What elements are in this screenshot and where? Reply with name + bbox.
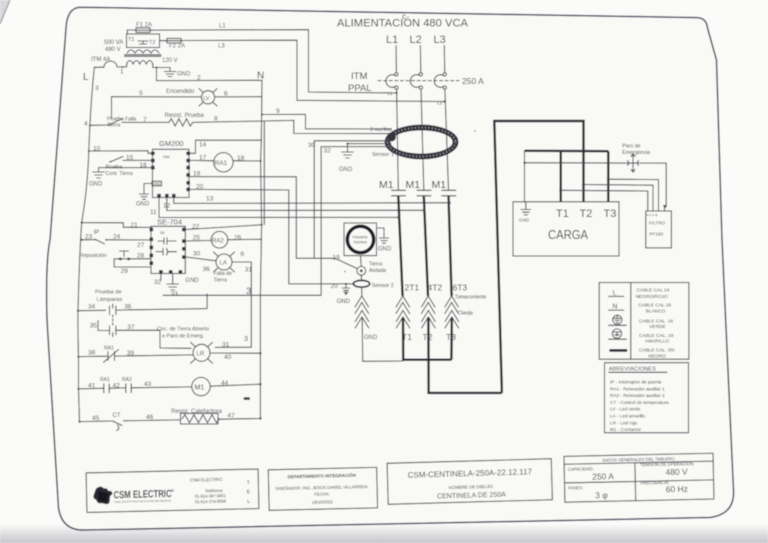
svg-text:CAPACIDAD:: CAPACIDAD: (568, 466, 594, 472)
contact 34-36 (78, 309, 207, 311)
svg-text:60 Hz: 60 Hz (666, 484, 688, 494)
phase L3 wire (pole to M1) (445, 89, 449, 190)
svg-text:PPAL: PPAL (348, 83, 372, 94)
wire GND to T1 corner (363, 360, 404, 362)
svg-text:Emergencia: Emergencia (622, 150, 650, 156)
svg-text:Clavija: Clavija (458, 311, 473, 317)
svg-text:LR: LR (197, 352, 205, 358)
svg-text:GM200: GM200 (159, 139, 184, 148)
svg-text:42: 42 (113, 383, 121, 390)
svg-text:13: 13 (206, 196, 214, 203)
rail L (left ladder rail) (78, 67, 99, 421)
sensor 1 secondary wire 32 + ground (321, 143, 391, 296)
wire 16 + ground (prueba cont tierra) (89, 162, 153, 188)
svg-text:SE-704: SE-704 (157, 218, 182, 227)
wire 7 (122, 117, 169, 124)
wire 6 (215, 91, 262, 98)
net CARGA GND riser (523, 151, 525, 202)
svg-text:T: T (247, 480, 250, 486)
wire 14 (to N rail) (190, 140, 261, 153)
ground (sensor 2 / wire 20) (337, 283, 351, 305)
phase 2T1 wire (397, 196, 419, 296)
switch IP (interruptor de puerta) (81, 230, 107, 244)
svg-text:o Paro de Emerg.: o Paro de Emerg. (162, 334, 204, 340)
svg-text:CABLE CAL. 16: CABLE CAL. 16 (639, 318, 674, 324)
phase L2 wire (top) (419, 46, 421, 73)
svg-text:M1: M1 (379, 179, 394, 191)
svg-text:32: 32 (324, 148, 332, 155)
wire 26 (228, 235, 262, 242)
wire 33 (to sensor2 ground bus) (163, 294, 321, 296)
svg-text:250 A: 250 A (592, 471, 614, 481)
svg-text:GND: GND (337, 299, 351, 305)
wire L1 (F1 to ITM pole) (150, 24, 396, 94)
svg-text:14: 14 (199, 142, 207, 149)
svg-text:RA2: RA2 (212, 238, 224, 244)
contactor contact M1 (pole 2) (406, 179, 432, 196)
contactor contact M1 (pole 3) (432, 179, 456, 196)
svg-text:19: 19 (333, 255, 341, 262)
wire 4 (84, 121, 109, 128)
svg-text:38: 38 (88, 350, 96, 357)
transformer T1 500VA 480V/120V (104, 34, 178, 64)
ground (SE-704) (167, 274, 199, 298)
svg-text:VERDE: VERDE (649, 324, 666, 330)
indicator LV Encendido (led verde) (166, 89, 217, 106)
svg-text:M1: M1 (406, 179, 421, 191)
sensor 1 secondary wire 30 (308, 141, 391, 258)
svg-text:36: 36 (203, 266, 211, 273)
phase L1 wire (top) (395, 46, 397, 73)
legend symbol ground yellow (609, 329, 674, 345)
svg-text:T3: T3 (604, 208, 617, 220)
text circ de tierra abierto o paro de emerg (157, 327, 209, 340)
capacitor C2 (inside SE-704) (156, 248, 176, 255)
svg-text:GND: GND (136, 202, 150, 208)
svg-text:PF150: PF150 (650, 232, 664, 237)
legend symbol ground green (609, 315, 674, 330)
wire 12 (to phase L2) (163, 198, 424, 211)
svg-text:43: 43 (144, 381, 152, 388)
svg-text:01-614-374-6058: 01-614-374-6058 (195, 499, 227, 505)
filter FILTRO PF150 (646, 208, 672, 248)
svg-text:26: 26 (234, 235, 242, 242)
svg-text:33: 33 (171, 291, 179, 298)
sensor 2 toroid (353, 275, 394, 289)
connector tomacorriente/clavija T3 (445, 296, 459, 360)
phase L2 wire (pole to M1) (421, 89, 424, 190)
svg-text:Paro de: Paro de (622, 144, 640, 150)
net T2 riser (thick staple to CARGA) (494, 121, 583, 393)
svg-text:Falla de: Falla de (214, 271, 233, 277)
svg-text:LR - Led rojo: LR - Led rojo (610, 420, 637, 425)
svg-text:IP - Interruptor de puerta: IP - Interruptor de puerta (610, 380, 662, 385)
contactor contact M1 (pole 1) (379, 179, 406, 196)
emergency stop Paro de Emergencia (525, 144, 667, 173)
svg-text:T2: T2 (580, 208, 593, 220)
wire T1 tap to filtro pin1 (561, 190, 648, 207)
svg-text:Cont. Tierra: Cont. Tierra (106, 171, 133, 177)
svg-text:M1 - Contactor: M1 - Contactor (610, 427, 641, 432)
contact CT (control de temperatura) (78, 413, 180, 431)
legend symbol thick cable (609, 348, 674, 360)
wire 17 (190, 155, 214, 162)
node 1 (120, 64, 127, 76)
svg-text:3 vueltas: 3 vueltas (370, 127, 392, 133)
svg-text:GM: GM (163, 154, 169, 159)
svg-text:19/10/2022: 19/10/2022 (312, 499, 334, 504)
svg-text:L1: L1 (388, 91, 394, 96)
contact RA1 (M1 row) (77, 377, 125, 393)
contact RA2 (M1 row) (113, 377, 192, 393)
svg-text:Prueba de: Prueba de (95, 290, 122, 296)
wire 36 drop (prueba lamparas to SE-704) (206, 294, 208, 309)
wire 13 (to phase L3) (174, 196, 450, 204)
svg-text:LA - Led amarillo: LA - Led amarillo (610, 414, 646, 419)
svg-text:GND: GND (519, 218, 530, 223)
svg-text:Lámparas: Lámparas (97, 297, 123, 303)
svg-text:GND: GND (378, 247, 392, 253)
wire T3 tap to filtro pin3 (608, 179, 658, 207)
svg-text:6: 6 (241, 251, 245, 258)
svg-text:L3: L3 (437, 101, 443, 106)
svg-text:6T3: 6T3 (453, 283, 468, 293)
svg-text:29: 29 (121, 268, 129, 275)
svg-text:L2: L2 (410, 34, 422, 46)
svg-text:F2 2A: F2 2A (169, 44, 185, 50)
rail N parallel segment (wire 8 drop) (263, 122, 265, 225)
wire 21 (81, 222, 151, 230)
svg-text:TIERRA: TIERRA (353, 241, 367, 245)
svg-text:3: 3 (244, 336, 248, 343)
svg-text:2T1: 2T1 (405, 283, 420, 293)
legend symbol L (609, 288, 670, 300)
wire L3 (F2 to ITM pole) (183, 40, 444, 101)
GM200 GND pin (136, 181, 162, 207)
svg-text:Tierra: Tierra (214, 278, 227, 284)
svg-text:250 A: 250 A (462, 76, 484, 86)
svg-text:3 φ: 3 φ (595, 490, 608, 500)
abbreviations box (605, 363, 689, 433)
svg-text:Tomacorriente: Tomacorriente (455, 295, 487, 301)
svg-text:4T2: 4T2 (428, 283, 443, 293)
svg-text:3: 3 (95, 85, 99, 92)
fuse F1 2A (127, 23, 152, 35)
wire 9 (N rail to sensor winding) (261, 108, 391, 129)
wire 32 (SE-704 pin) (154, 274, 162, 286)
ground (120V secondary) (153, 64, 191, 78)
wire 11 (to phase L1) (150, 198, 398, 218)
svg-text:Encendido: Encendido (166, 89, 195, 95)
svg-text:Circ. de Tierra Abierto: Circ. de Tierra Abierto (157, 327, 209, 333)
svg-text:FASES:: FASES: (568, 485, 583, 490)
svg-text:500 VA: 500 VA (104, 40, 123, 46)
svg-text:28: 28 (137, 252, 145, 259)
wire 10 (88, 146, 153, 154)
wire paro to filtro pin4 (663, 163, 666, 208)
relay RA1 (214, 153, 233, 172)
svg-text:CABLE CAL. 3/0: CABLE CAL. 3/0 (639, 348, 675, 354)
svg-text:Tierra: Tierra (369, 262, 382, 268)
svg-text:LV: LV (203, 96, 210, 102)
svg-text:CT: CT (113, 413, 121, 419)
svg-text:Resist. Calefactora: Resist. Calefactora (171, 409, 222, 415)
phase L1 wire (pole to M1) (397, 89, 399, 190)
svg-text:CABLE CAL 16: CABLE CAL 16 (637, 288, 670, 294)
net T1/T3 bus to CARGA (525, 151, 610, 202)
wire 2 (to N rail) (156, 66, 263, 81)
wire 24 (106, 234, 151, 249)
resistor Resist. Calefactora (171, 409, 235, 424)
svg-text:Sensor 2: Sensor 2 (372, 283, 394, 289)
svg-text:BLANCO: BLANCO (646, 308, 666, 314)
svg-text:TRAMPA: TRAMPA (352, 236, 368, 240)
svg-text:T2: T2 (149, 40, 155, 46)
svg-text:GND: GND (89, 182, 103, 188)
svg-text:FECHA:: FECHA: (314, 491, 329, 496)
mechanical link dashed (112, 315, 114, 327)
svg-text:Resist. Prueba: Resist. Prueba (165, 113, 205, 119)
svg-text:4: 4 (84, 121, 88, 128)
switch Prueba Falla Tierra (107, 117, 137, 129)
svg-text:30: 30 (193, 251, 201, 258)
wire 29 (114, 259, 151, 275)
phase 4T2 wire (423, 196, 443, 296)
svg-text:SE: SE (160, 231, 165, 235)
tierra aislada electrode (357, 256, 386, 276)
svg-text:CT - Control de temperatura: CT - Control de temperatura (610, 400, 669, 405)
capacitor C1 (inside SE-704) (158, 238, 176, 244)
wire 15 (123, 155, 153, 162)
svg-text:35: 35 (90, 323, 98, 330)
wire 20 (GM200 to sensor 2) (190, 184, 354, 291)
svg-text:27: 27 (137, 242, 145, 249)
svg-text:GND: GND (153, 182, 161, 186)
svg-text:GND: GND (177, 72, 191, 78)
wire 40 (210, 352, 262, 354)
svg-text:11: 11 (150, 209, 157, 216)
connector tomacorriente/clavija GND (355, 287, 378, 362)
resistor Resist. Prueba (165, 113, 205, 126)
svg-text:CSM ELECTRIC: CSM ELECTRIC (190, 477, 223, 483)
svg-text:34: 34 (88, 304, 96, 311)
svg-text:120 V: 120 V (162, 58, 178, 64)
phase 6T3 wire (448, 196, 467, 296)
svg-text:RA1 - Relevador auxiliar 1: RA1 - Relevador auxiliar 1 (610, 386, 665, 391)
svg-text:GND: GND (339, 167, 353, 173)
svg-text:RA1: RA1 (215, 160, 228, 167)
title block: departamento integracion (268, 467, 377, 510)
svg-text:CABLE CAL. 18: CABLE CAL. 18 (639, 333, 674, 339)
svg-text:®: ® (171, 488, 174, 493)
ground (trampa tierra) (377, 228, 393, 253)
breaker ITM PPAL 250A (348, 71, 484, 106)
svg-text:480 V: 480 V (665, 467, 688, 477)
legend symbol N (609, 303, 672, 315)
svg-text:CABLE CAL 16: CABLE CAL 16 (638, 303, 671, 309)
svg-text:L1: L1 (386, 34, 398, 46)
breaker ITM 4A (91, 57, 127, 67)
ground (CARGA) (519, 202, 531, 223)
svg-text:N: N (612, 304, 617, 311)
rail N (right ladder rail) (260, 80, 262, 418)
wire 37 (to LR) (138, 330, 191, 348)
contactor coil M1 (192, 377, 229, 395)
wire 25 (186, 235, 212, 242)
svg-text:FILTRO: FILTRO (649, 221, 665, 226)
connector tomacorriente/clavija T2 (421, 296, 502, 393)
wire 18 (233, 155, 262, 162)
svg-text:20: 20 (331, 283, 339, 290)
svg-text:ITM: ITM (351, 71, 367, 82)
svg-text:c: c (402, 12, 406, 21)
svg-text:40: 40 (224, 354, 232, 361)
svg-text:L3: L3 (434, 34, 446, 46)
svg-text:M1: M1 (195, 385, 205, 392)
svg-text:L: L (83, 72, 89, 83)
wire 30 (SE-704 to LA) (186, 251, 216, 261)
svg-text:L: L (247, 499, 250, 505)
wire 47 (218, 417, 262, 419)
svg-text:480 V: 480 V (105, 47, 121, 53)
svg-text:5: 5 (139, 90, 143, 97)
svg-text:M1: M1 (432, 179, 447, 191)
svg-text:T1: T1 (556, 208, 569, 220)
load CARGA box (513, 202, 619, 256)
svg-text:L1: L1 (219, 24, 226, 30)
svg-text:NEGRO/ROJO: NEGRO/ROJO (636, 294, 669, 300)
svg-text:GND: GND (364, 335, 378, 341)
svg-text:21: 21 (131, 222, 139, 229)
svg-text:31: 31 (222, 342, 230, 349)
svg-text:A O C B: A O C B (647, 213, 658, 217)
switch Prueba de Lamparas (77, 290, 207, 337)
relay RA2 (211, 231, 228, 248)
IC SE-704 relay module (150, 218, 186, 274)
title block: logo box CSM ELECTRIC (86, 469, 259, 512)
svg-text:46: 46 (146, 414, 154, 421)
wire T2 tap to filtro pin2 (584, 185, 654, 208)
trampa tierra (344, 223, 377, 256)
stray specks (244, 397, 251, 400)
IC GM200 ground-fault module (151, 139, 190, 198)
svg-text:GND: GND (185, 278, 199, 284)
wire 44 (210, 383, 261, 386)
connector tomacorriente/clavija T1 (396, 295, 487, 360)
svg-text:T1: T1 (128, 37, 134, 43)
push button Reposicion (80, 251, 152, 261)
legend cable colour table (599, 283, 689, 360)
fuse F2 2A (160, 38, 186, 49)
current sensor Sensor 1 toroid 3 vueltas (370, 125, 458, 159)
svg-text:NEGRO: NEGRO (648, 354, 666, 360)
phase L3 wire (top) (443, 46, 445, 73)
indicator LR (led rojo) (191, 342, 232, 364)
svg-text:1: 1 (120, 69, 124, 76)
wire 31 (LA to LR row) (215, 262, 251, 347)
wire 8 (to sensor winding) (193, 116, 391, 134)
wire 22 (to N rail) (186, 224, 263, 231)
wire 5 (112, 90, 202, 119)
svg-text:N: N (257, 71, 264, 82)
svg-text:Reposición: Reposición (80, 253, 107, 259)
title block: drawing number (387, 459, 552, 505)
contact 35-37 (104, 329, 138, 331)
svg-text:RA2: RA2 (122, 377, 132, 383)
contact RA1 NC (LR row) (77, 346, 193, 363)
svg-text:L3: L3 (218, 44, 225, 50)
svg-text:LV - Led verde: LV - Led verde (610, 407, 641, 412)
svg-text:RA2 - Relevador auxiliar 2: RA2 - Relevador auxiliar 2 (610, 393, 665, 398)
wire 19 (GM200 to tierra aislada) (190, 171, 357, 269)
svg-text:CARGA: CARGA (548, 228, 589, 242)
svg-text:RA1: RA1 (100, 377, 110, 383)
svg-text:ABREVIACIONES: ABREVIACIONES (609, 367, 656, 373)
svg-text:Sensor 1: Sensor 1 (372, 152, 394, 158)
svg-text:LA: LA (220, 261, 227, 267)
switch Prueba Cont. Tierra (106, 157, 133, 178)
svg-text:RA1: RA1 (104, 346, 114, 352)
svg-text:AMARILLO: AMARILLO (645, 339, 670, 345)
svg-text:Aislada: Aislada (369, 268, 386, 274)
title block: datos generales table (564, 453, 714, 502)
indicator LA Falla de Tierra (led amarillo) (203, 251, 253, 284)
svg-text:IP: IP (94, 230, 100, 236)
